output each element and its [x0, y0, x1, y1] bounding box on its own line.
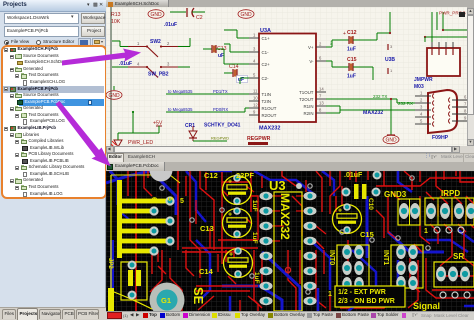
pin 4: [249, 63, 259, 65]
net REGPWD wire: [193, 140, 227, 142]
wire filler red traces: [151, 255, 153, 274]
pin 1: [415, 95, 431, 97]
wires to U3A left pins: [237, 37, 249, 39]
capacitor C12 footprint: [223, 176, 252, 205]
pin 7: [452, 106, 470, 108]
wire red traces: [135, 171, 137, 311]
sheet border: [110, 7, 112, 146]
project combo: [4, 26, 79, 37]
net wires TX/RX: [166, 93, 249, 95]
pin 12: [249, 107, 259, 109]
wire extra blue traces: [150, 170, 162, 173]
ground GND2: [238, 10, 254, 19]
wire extra red traces: [144, 171, 152, 196]
workspace button: [81, 13, 105, 24]
pin 13: [316, 105, 326, 107]
pin 10: [249, 100, 259, 102]
pin 8: [452, 113, 470, 115]
text box EXT PWR: [335, 286, 405, 307]
radio row: [4, 40, 9, 45]
tree box with orange border: [1, 45, 107, 199]
connector JMPWR M03: [427, 48, 460, 76]
workspace combo: [4, 13, 79, 24]
wire: [132, 112, 134, 133]
wire to gnd: [390, 99, 392, 135]
U3B pins: [387, 44, 389, 50]
ground GND1: [148, 10, 164, 19]
capacitor C16 footprint: [121, 262, 147, 300]
pin 14: [316, 91, 326, 93]
mounting hole: [150, 159, 173, 182]
pin 9: [452, 120, 470, 122]
pin 5: [249, 77, 259, 79]
LED PWR_LED: [114, 140, 122, 147]
board outline: [110, 175, 112, 311]
pin 9: [249, 114, 259, 116]
pin 6: [452, 99, 470, 101]
wires around SW2: [112, 40, 120, 42]
annotation arrow 1: [62, 49, 141, 66]
pin 3: [415, 109, 431, 111]
pin 11: [249, 93, 259, 95]
annotation arrow 2: [56, 101, 112, 167]
capacitor C14 footprint: [224, 249, 253, 278]
pin 2: [415, 102, 431, 104]
pin 7: [316, 98, 326, 100]
wires top right: [431, 12, 433, 37]
connector JP pads: [117, 180, 122, 258]
capacitor C13 footprint: [223, 209, 252, 238]
wires to DB9: [326, 98, 397, 100]
pin 2: [316, 46, 326, 48]
pin 3: [249, 51, 259, 53]
vias: [160, 186, 164, 190]
pin 4: [415, 116, 431, 118]
ground GND4: [387, 134, 395, 136]
panel title bar: [0, 0, 106, 12]
schematic h scrollbar: [106, 146, 467, 153]
capacitor C15 footprint: [333, 205, 362, 234]
via red ring: [285, 267, 290, 272]
capacitor C14: [224, 72, 233, 74]
pin 6: [316, 60, 326, 62]
pad G1: [150, 283, 185, 318]
capacitor C2: [186, 8, 188, 17]
pin 1: [249, 37, 259, 39]
wire blue traces: [106, 171, 150, 183]
capacitor C13: [203, 48, 212, 50]
bottom panel tabs: [0, 307, 106, 320]
ground GND3: [113, 86, 115, 90]
pin 8: [316, 112, 326, 114]
pin 5: [415, 123, 431, 125]
project button: [81, 26, 105, 37]
schematic v scrollbar: [467, 8, 474, 147]
wire top: [170, 11, 186, 13]
